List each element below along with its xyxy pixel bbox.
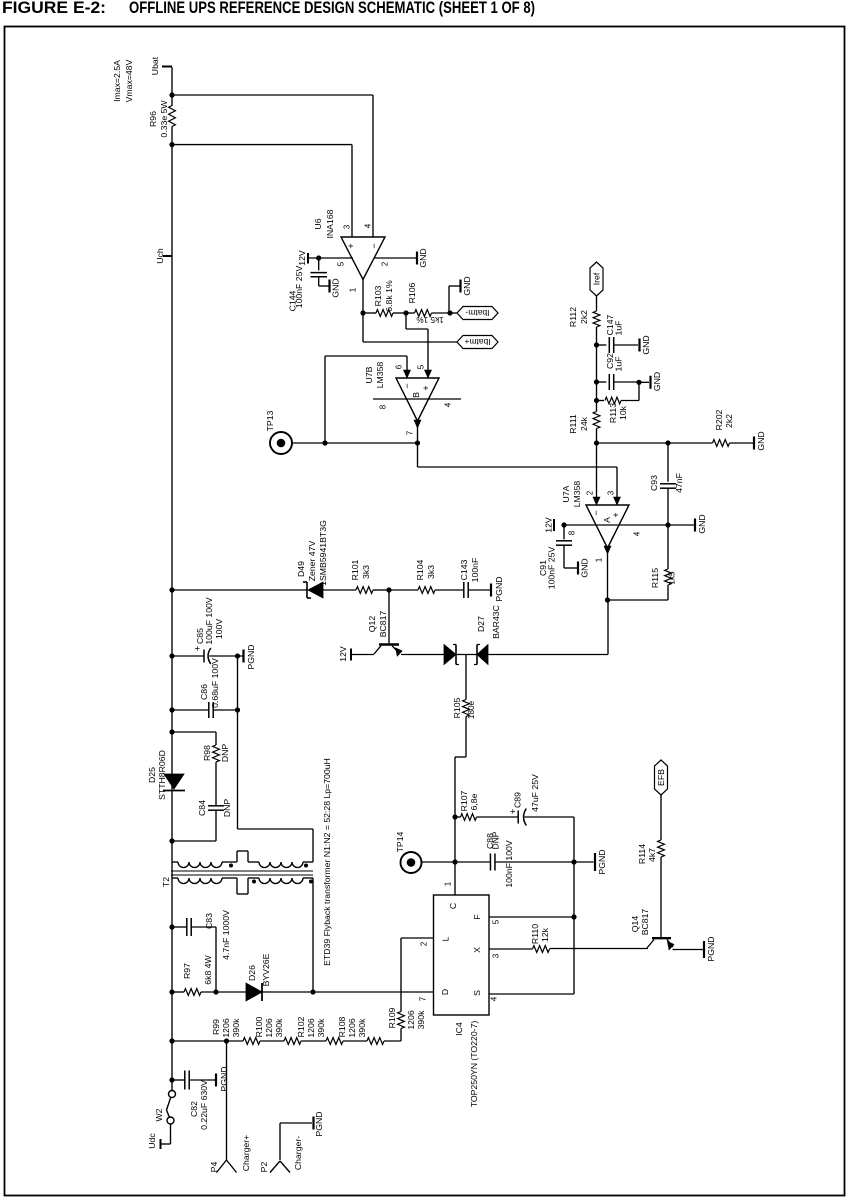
- svg-text:0.68uF 100V: 0.68uF 100V: [210, 658, 220, 708]
- svg-text:5: 5: [337, 261, 346, 266]
- svg-text:GND: GND: [418, 248, 428, 267]
- svg-text:DNP: DNP: [220, 744, 230, 763]
- svg-text:GND: GND: [462, 276, 472, 295]
- svg-text:3k3: 3k3: [361, 565, 371, 579]
- svg-text:PGND: PGND: [246, 644, 256, 669]
- svg-text:1206: 1206: [221, 1018, 231, 1037]
- svg-text:P2: P2: [259, 1162, 269, 1173]
- svg-text:D: D: [440, 989, 450, 995]
- svg-text:4.7nF 1000V: 4.7nF 1000V: [221, 910, 231, 960]
- svg-text:R103: R103: [373, 285, 383, 306]
- svg-text:Imax=2.5A: Imax=2.5A: [112, 60, 122, 102]
- svg-text:C82: C82: [189, 1101, 199, 1117]
- svg-text:GND: GND: [756, 431, 766, 450]
- svg-text:100uF 100V: 100uF 100V: [204, 597, 214, 645]
- svg-text:180e: 180e: [467, 700, 476, 719]
- svg-text:Charger-: Charger-: [293, 1136, 303, 1170]
- svg-text:BC817: BC817: [640, 909, 650, 936]
- svg-text:R98: R98: [202, 745, 212, 761]
- svg-text:R100: R100: [254, 1016, 264, 1037]
- svg-text:T2: T2: [161, 877, 171, 887]
- svg-text:8: 8: [379, 404, 388, 409]
- svg-text:C84: C84: [197, 800, 207, 816]
- svg-text:D49: D49: [296, 561, 306, 577]
- svg-text:12V: 12V: [297, 250, 307, 266]
- svg-text:GND: GND: [697, 514, 707, 533]
- svg-text:+: +: [346, 243, 356, 248]
- svg-text:R112: R112: [568, 307, 578, 327]
- svg-text:1: 1: [349, 287, 358, 292]
- svg-text:2k2: 2k2: [724, 414, 734, 428]
- svg-text:1206: 1206: [406, 1010, 416, 1029]
- svg-text:R113: R113: [608, 403, 618, 423]
- svg-text:1k5: 1k5: [668, 571, 677, 585]
- svg-text:+: +: [508, 808, 519, 814]
- svg-text:8: 8: [568, 530, 577, 535]
- svg-text:GND: GND: [331, 278, 341, 297]
- svg-text:Ibatm+: Ibatm+: [464, 337, 490, 347]
- svg-text:6.8k 1%: 6.8k 1%: [384, 280, 394, 312]
- svg-text:Iref: Iref: [592, 272, 602, 285]
- svg-text:R102: R102: [296, 1016, 306, 1037]
- svg-text:Udc: Udc: [147, 1133, 157, 1149]
- svg-text:12V: 12V: [338, 646, 348, 662]
- svg-text:R97: R97: [182, 963, 192, 979]
- svg-text:4: 4: [490, 996, 499, 1001]
- svg-text:−: −: [591, 510, 601, 515]
- svg-text:ETD39 Flyback transformer N1:N: ETD39 Flyback transformer N1:N2 = 52:28 …: [322, 758, 332, 966]
- svg-text:R106: R106: [407, 282, 417, 303]
- svg-text:PGND: PGND: [597, 849, 607, 874]
- svg-text:D26: D26: [247, 965, 257, 981]
- svg-text:GND: GND: [580, 558, 590, 577]
- svg-text:TOP250YN (TO220-7): TOP250YN (TO220-7): [469, 1021, 479, 1108]
- svg-text:C86: C86: [199, 684, 209, 700]
- svg-text:4: 4: [633, 531, 642, 536]
- svg-text:6k8 4W: 6k8 4W: [203, 954, 213, 984]
- svg-text:1uF: 1uF: [614, 321, 624, 336]
- svg-text:R101: R101: [350, 559, 360, 580]
- svg-text:R114: R114: [637, 844, 647, 864]
- svg-text:BC817: BC817: [378, 611, 388, 638]
- svg-text:2: 2: [381, 261, 390, 266]
- svg-text:IC4: IC4: [454, 1022, 464, 1036]
- svg-text:+: +: [193, 645, 204, 651]
- svg-text:100nF: 100nF: [470, 558, 480, 583]
- svg-text:BYV26E: BYV26E: [261, 953, 271, 986]
- svg-text:1206: 1206: [306, 1018, 316, 1037]
- svg-text:DNP: DNP: [222, 799, 232, 818]
- svg-text:390k: 390k: [357, 1018, 367, 1037]
- svg-text:C143: C143: [459, 559, 469, 580]
- svg-text:LM358: LM358: [375, 362, 385, 389]
- svg-text:PGND: PGND: [219, 1066, 229, 1091]
- svg-text:BAR43C: BAR43C: [491, 605, 501, 639]
- svg-text:1: 1: [595, 557, 604, 562]
- svg-text:DNP: DNP: [491, 831, 501, 849]
- svg-text:INA168: INA168: [325, 209, 335, 238]
- svg-text:100nF 100V: 100nF 100V: [504, 840, 514, 888]
- svg-text:390k: 390k: [416, 1010, 426, 1029]
- svg-text:6,8e: 6,8e: [469, 793, 479, 810]
- svg-text:Zener 47V: Zener 47V: [307, 541, 317, 582]
- svg-text:D25: D25: [147, 767, 157, 783]
- svg-text:1uF: 1uF: [614, 357, 624, 372]
- svg-text:3: 3: [492, 953, 501, 958]
- svg-text:R96: R96: [148, 111, 158, 127]
- svg-text:47nF: 47nF: [674, 473, 684, 493]
- svg-text:D27: D27: [476, 616, 486, 632]
- svg-text:4k7: 4k7: [647, 848, 657, 862]
- svg-text:PGND: PGND: [314, 1111, 324, 1136]
- svg-text:TP14: TP14: [395, 831, 405, 852]
- svg-text:5: 5: [492, 919, 501, 924]
- svg-text:12k: 12k: [540, 927, 550, 942]
- svg-text:R111: R111: [568, 414, 578, 434]
- svg-text:+: +: [421, 385, 431, 390]
- svg-text:24k: 24k: [579, 416, 589, 431]
- svg-text:GND: GND: [652, 372, 662, 391]
- svg-text:C: C: [448, 903, 458, 909]
- svg-text:R105: R105: [452, 697, 462, 718]
- svg-text:U6: U6: [313, 218, 323, 229]
- svg-text:S: S: [472, 990, 482, 996]
- svg-text:0.22uF 630V: 0.22uF 630V: [199, 1080, 209, 1130]
- svg-text:−: −: [402, 383, 412, 388]
- svg-text:0.33e 5W: 0.33e 5W: [159, 100, 169, 138]
- svg-text:100nF 25V: 100nF 25V: [294, 266, 304, 309]
- svg-text:390k: 390k: [274, 1018, 284, 1037]
- svg-text:1206: 1206: [264, 1018, 274, 1037]
- svg-text:100nF 25V: 100nF 25V: [547, 547, 557, 590]
- svg-text:R108: R108: [337, 1016, 347, 1037]
- svg-text:1206: 1206: [347, 1018, 357, 1037]
- svg-text:10k: 10k: [618, 405, 628, 420]
- svg-text:3: 3: [343, 224, 352, 229]
- svg-text:R104: R104: [415, 559, 425, 580]
- svg-text:1: 1: [444, 881, 453, 886]
- svg-text:F: F: [472, 914, 482, 919]
- svg-text:PGND: PGND: [494, 576, 504, 601]
- svg-text:1k5 1%: 1k5 1%: [416, 315, 443, 324]
- svg-text:R202: R202: [714, 409, 724, 430]
- svg-text:390k: 390k: [231, 1018, 241, 1037]
- svg-text:4: 4: [444, 402, 453, 407]
- svg-text:Q14: Q14: [630, 916, 640, 933]
- svg-text:Ibatm-: Ibatm-: [465, 308, 489, 318]
- svg-text:2: 2: [586, 490, 595, 495]
- svg-text:1SMB5941BT3G: 1SMB5941BT3G: [318, 520, 328, 586]
- svg-text:5: 5: [417, 364, 426, 369]
- svg-text:2k2: 2k2: [579, 310, 589, 324]
- svg-text:4: 4: [364, 223, 373, 228]
- svg-text:C89: C89: [513, 792, 523, 808]
- svg-text:P4: P4: [209, 1162, 219, 1173]
- svg-text:+: +: [611, 512, 621, 517]
- svg-text:FIGURE E-2:: FIGURE E-2:: [2, 0, 106, 17]
- svg-text:L: L: [441, 936, 451, 941]
- svg-text:7: 7: [406, 430, 415, 435]
- svg-text:A: A: [602, 517, 612, 523]
- svg-text:B: B: [411, 392, 421, 398]
- svg-text:R109: R109: [387, 1007, 397, 1028]
- svg-text:Ubat: Ubat: [150, 56, 160, 75]
- svg-text:−: −: [369, 243, 379, 248]
- svg-text:100V: 100V: [214, 619, 224, 639]
- svg-text:7: 7: [419, 996, 428, 1001]
- svg-text:Vmax=48V: Vmax=48V: [124, 59, 134, 102]
- svg-text:R115: R115: [650, 568, 660, 588]
- svg-text:STTH8R06D: STTH8R06D: [157, 750, 167, 800]
- svg-text:W2: W2: [154, 1108, 164, 1121]
- svg-text:6: 6: [395, 364, 404, 369]
- svg-text:C93: C93: [649, 475, 659, 491]
- svg-text:3k3: 3k3: [426, 565, 436, 579]
- svg-text:47uF 25V: 47uF 25V: [530, 774, 540, 812]
- svg-text:U7A: U7A: [561, 485, 571, 502]
- svg-text:R107: R107: [459, 790, 469, 811]
- svg-text:Q12: Q12: [367, 616, 377, 633]
- svg-text:TP13: TP13: [265, 410, 275, 431]
- svg-text:R99: R99: [211, 1019, 221, 1035]
- svg-text:X: X: [472, 947, 482, 953]
- svg-text:Uch: Uch: [155, 248, 165, 264]
- svg-text:GND: GND: [641, 335, 651, 354]
- svg-text:EFB: EFB: [656, 769, 666, 786]
- svg-text:390k: 390k: [316, 1018, 326, 1037]
- svg-text:OFFLINE UPS REFERENCE DESIGN S: OFFLINE UPS REFERENCE DESIGN SCHEMATIC (…: [129, 0, 535, 17]
- svg-text:Charger+: Charger+: [241, 1135, 251, 1171]
- svg-text:2: 2: [420, 941, 429, 946]
- svg-text:PGND: PGND: [706, 936, 716, 961]
- svg-text:LM358: LM358: [572, 481, 582, 508]
- svg-text:U7B: U7B: [364, 366, 374, 383]
- svg-text:R110: R110: [530, 924, 540, 944]
- svg-text:12V: 12V: [544, 517, 554, 533]
- svg-text:3: 3: [607, 490, 616, 495]
